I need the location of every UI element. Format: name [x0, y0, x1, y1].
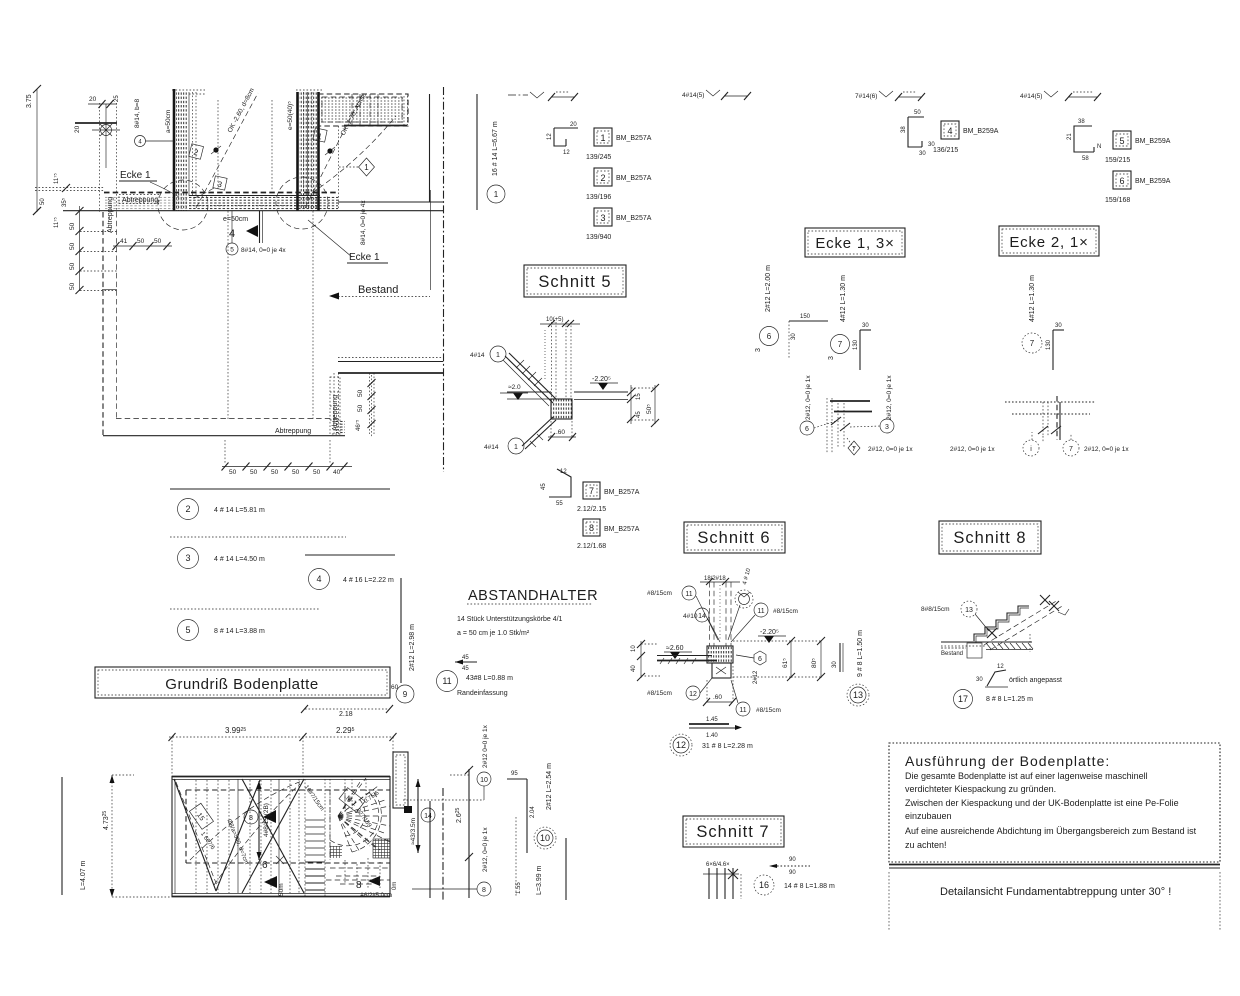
- callout circle wall A: [134, 99, 174, 147]
- svg-text:4#14(5): 4#14(5): [1020, 93, 1042, 100]
- svg-text:50: 50: [69, 262, 76, 270]
- svg-text:8#14, 0=0 je 4x: 8#14, 0=0 je 4x: [360, 200, 367, 245]
- Ecke 1, 3x title box: [805, 228, 905, 257]
- svg-text:6: 6: [758, 656, 762, 663]
- diagonal leader A with OK -2.60: [196, 87, 258, 208]
- svg-text:4#14: 4#14: [484, 444, 499, 451]
- left outer dim line 3.75: [26, 85, 41, 215]
- 8 and pointer bottom: [356, 876, 398, 899]
- svg-text:7: 7: [838, 340, 843, 349]
- svg-text:#8/15cm: #8/15cm: [773, 608, 798, 615]
- right dim chain 80: [791, 637, 825, 681]
- svg-text:Schnitt 6: Schnitt 6: [697, 529, 770, 547]
- svg-text:4#8/15 (2B): 4#8/15 (2B): [263, 803, 270, 837]
- svg-text:4 # 16 L=2.22 m: 4 # 16 L=2.22 m: [343, 577, 394, 584]
- svg-text:BM_B257A: BM_B257A: [604, 489, 640, 496]
- svg-text:45: 45: [636, 411, 642, 418]
- svg-text:50: 50: [292, 469, 300, 476]
- wall line right: [429, 94, 431, 202]
- callout circle 5: [226, 211, 286, 255]
- Schnitt 5 title box: [524, 265, 626, 297]
- Abtreppung right rotated label: [330, 377, 340, 434]
- svg-text:.60: .60: [556, 429, 565, 436]
- svg-text:13: 13: [853, 690, 863, 700]
- hatch under steps: [986, 643, 1033, 650]
- svg-text:58: 58: [1082, 156, 1089, 162]
- foundation block: [707, 646, 733, 678]
- svg-text:einzubauen: einzubauen: [905, 811, 952, 821]
- svg-text:30: 30: [919, 151, 926, 157]
- svg-text:8: 8: [482, 887, 486, 894]
- wall dotted above: [540, 317, 580, 399]
- svg-text:Detailansicht Fundamentabtrepp: Detailansicht Fundamentabtreppung unter …: [940, 886, 1171, 898]
- svg-text:e=50cm: e=50cm: [223, 216, 248, 223]
- schedule box 2: [586, 168, 652, 201]
- bar line 4: [305, 555, 395, 590]
- schedule box 5: [1105, 131, 1171, 164]
- svg-text:2#12 L=2.00 m: 2#12 L=2.00 m: [765, 265, 772, 312]
- diagonal leader B: [305, 92, 368, 208]
- svg-text:14 # 8 L=1.88 m: 14 # 8 L=1.88 m: [784, 883, 835, 890]
- svg-text:20: 20: [89, 96, 97, 103]
- svg-text:10: 10: [480, 777, 488, 784]
- svg-text:2.12/1.68: 2.12/1.68: [577, 543, 606, 550]
- svg-text:159/168: 159/168: [1105, 197, 1130, 204]
- bar line 3: [170, 537, 346, 569]
- svg-text:≈2.0: ≈2.0: [508, 384, 521, 391]
- dim 2.18: [301, 705, 393, 718]
- svg-text:8: 8: [589, 523, 594, 533]
- svg-text:#8/15cm: #8/15cm: [647, 590, 672, 597]
- V brace left: [174, 779, 260, 891]
- svg-text:3.75: 3.75: [26, 94, 33, 108]
- svg-text:50m: 50m: [278, 883, 285, 896]
- svg-text:12: 12: [547, 133, 553, 140]
- extra: top plan upper opening dots: [172, 90, 322, 190]
- main top dim chain: [169, 726, 397, 776]
- svg-text:#8/15cm: #8/15cm: [647, 690, 672, 697]
- Ecke1 corner callouts: [800, 375, 814, 435]
- svg-text:11: 11: [757, 608, 764, 615]
- svg-text:95: 95: [511, 771, 518, 777]
- svg-text:2#12 L=2.54 m: 2#12 L=2.54 m: [546, 763, 553, 810]
- svg-text:30: 30: [791, 333, 797, 340]
- svg-text:50: 50: [229, 469, 237, 476]
- Ecke2 callouts: [950, 440, 1039, 456]
- svg-text:6: 6: [262, 860, 268, 871]
- right dim chain outer: [631, 384, 659, 427]
- svg-text:2#12, 0=0 je 1x: 2#12, 0=0 je 1x: [886, 375, 893, 420]
- fan callouts right: [728, 590, 753, 640]
- schedule box 8: [577, 519, 640, 550]
- right dim chain small: [627, 385, 642, 424]
- svg-text:50⁵: 50⁵: [646, 404, 653, 414]
- svg-text:zu achten!: zu achten!: [905, 840, 947, 850]
- svg-text:14: 14: [424, 813, 432, 820]
- schedule box 1: [586, 128, 652, 161]
- svg-text:≈2.60: ≈2.60: [666, 645, 684, 652]
- svg-text:-2.20⁵: -2.20⁵: [592, 376, 611, 383]
- svg-text:Ecke 2, 1×: Ecke 2, 1×: [1009, 234, 1088, 251]
- bent bar glyph 7/8: [541, 469, 571, 507]
- svg-text:Auf eine ausreichende Abdichtu: Auf eine ausreichende Abdichtung im Über…: [905, 826, 1197, 836]
- svg-text:Ecke 1: Ecke 1: [349, 252, 380, 263]
- svg-text:örtlich angepasst: örtlich angepasst: [1009, 677, 1062, 684]
- lower diagonal bar bundle with callout 1: [484, 417, 556, 454]
- Schnitt 6 title box: [684, 522, 785, 553]
- dashed investigation circle right: [276, 177, 328, 229]
- survey point symbol: [92, 104, 120, 168]
- svg-text:verdichteter Kiespackung zu gr: verdichteter Kiespackung zu gründen.: [905, 784, 1056, 794]
- svg-text:5: 5: [185, 625, 190, 635]
- Schnitt 7 title box: [683, 816, 784, 847]
- svg-text:Randeinfassung: Randeinfassung: [457, 690, 508, 697]
- svg-text:2#12, 0=0 je 1x: 2#12, 0=0 je 1x: [950, 446, 995, 453]
- svg-text:50: 50: [357, 404, 364, 412]
- svg-text:4#12 L=1.30 m: 4#12 L=1.30 m: [1029, 275, 1036, 322]
- svg-text:4#12 L=1.30 m: 4#12 L=1.30 m: [840, 275, 847, 322]
- svg-text:a=50cm: a=50cm: [165, 110, 172, 133]
- Ecke 1 label: [119, 170, 179, 197]
- svg-text:11: 11: [442, 676, 451, 686]
- schedule box 6: [1105, 171, 1171, 204]
- Schnitt 8 title box: [939, 521, 1041, 554]
- svg-text:Abtreppung: Abtreppung: [275, 428, 311, 435]
- svg-text:8 # 14 L=3.88 m: 8 # 14 L=3.88 m: [214, 628, 265, 635]
- svg-text:11⁷⁵: 11⁷⁵: [53, 217, 60, 228]
- svg-text:41: 41: [120, 238, 128, 245]
- bottom plan extra joist dotted lines: [196, 780, 290, 893]
- horizontal wall band hatched: [104, 196, 338, 210]
- item 9 vertical bar: [391, 578, 416, 703]
- svg-text:25: 25: [114, 95, 120, 102]
- svg-text:1.55: 1.55: [516, 882, 522, 894]
- bent bar glyph 5: [1067, 119, 1101, 162]
- stepped dashes right: [330, 860, 388, 884]
- svg-text:12: 12: [560, 469, 567, 475]
- X mark mid: [987, 628, 997, 638]
- schnitt 7 detail bars: [703, 862, 741, 899]
- Bestand floor line: [338, 201, 443, 203]
- Ecke1 corner bars: [814, 398, 880, 454]
- svg-text:Abtreppung: Abtreppung: [332, 395, 339, 431]
- svg-text:3: 3: [755, 348, 762, 352]
- left dim chain: [69, 206, 84, 294]
- schedule box 4: [933, 121, 999, 154]
- item 16: [754, 875, 835, 895]
- tilted bar mark 1: [313, 128, 327, 142]
- horizontal dim chain 41/50/50: [113, 238, 173, 250]
- lower left annotation 6: [262, 856, 285, 896]
- svg-text:ABSTANDHALTER: ABSTANDHALTER: [468, 588, 598, 604]
- right room fan: [303, 785, 388, 860]
- Abtreppung label horizontal: [119, 195, 159, 205]
- svg-text:N: N: [1097, 144, 1101, 150]
- L-bar 6 shape: [789, 314, 828, 358]
- svg-text:130: 130: [853, 339, 859, 350]
- extra density: bottom plan fan arcs: [338, 778, 390, 852]
- extra: bestand block inner verticals: [352, 94, 408, 126]
- bar line 5: [170, 609, 320, 641]
- Bestand foundation steps right: [338, 358, 443, 435]
- svg-text:Schnitt 8: Schnitt 8: [953, 529, 1026, 547]
- svg-text:Die gesamte Bodenplatte ist au: Die gesamte Bodenplatte ist auf einer la…: [905, 771, 1148, 781]
- bent bar glyph 1-3: [547, 122, 578, 156]
- tilted label 15: [189, 803, 213, 829]
- lower callout 12 with dim 60: [647, 678, 712, 700]
- svg-text:8#14, 0=0 je 4x: 8#14, 0=0 je 4x: [241, 247, 286, 254]
- bestand box: [941, 643, 982, 658]
- svg-text:2#12 L=2.98 m: 2#12 L=2.98 m: [409, 624, 416, 671]
- mark group d: [1020, 91, 1101, 101]
- svg-text:30: 30: [862, 323, 869, 329]
- svg-text:9 # 8 L=1.50 m: 9 # 8 L=1.50 m: [857, 630, 864, 677]
- plate outline dashed left/bottom: [103, 212, 345, 436]
- fan callouts left: [647, 586, 718, 640]
- vertical bar line with item 1: [477, 94, 505, 210]
- tilted bar mark 2: [189, 144, 204, 160]
- svg-text:-2.20⁵: -2.20⁵: [760, 629, 779, 636]
- svg-text:7#14(6): 7#14(6): [855, 93, 877, 100]
- svg-text:12: 12: [997, 664, 1004, 670]
- svg-text:2#12, 0=0 je 1x: 2#12, 0=0 je 1x: [868, 446, 913, 453]
- Ecke 1 second label: [308, 220, 388, 263]
- L-bar 7 shape: [1046, 323, 1064, 370]
- bottom dim chain 50x5 40: [222, 440, 353, 476]
- plan outline: [172, 776, 390, 897]
- svg-text:18/2#18: 18/2#18: [704, 576, 726, 582]
- bar line 2: [170, 489, 390, 520]
- svg-text:50: 50: [69, 222, 76, 230]
- svg-text:2: 2: [185, 504, 190, 514]
- svg-text:21: 21: [1067, 133, 1073, 140]
- svg-text:40: 40: [631, 665, 637, 672]
- svg-text:10: 10: [540, 833, 550, 843]
- wall band A hatched: [174, 89, 196, 211]
- svg-text:139/196: 139/196: [586, 194, 611, 201]
- svg-text:12: 12: [563, 150, 570, 156]
- svg-text:50: 50: [40, 198, 46, 205]
- svg-text:7: 7: [589, 486, 594, 496]
- svg-text:6: 6: [767, 332, 772, 341]
- svg-text:#8/15cm: #8/15cm: [756, 707, 781, 714]
- svg-text:136/215: 136/215: [933, 147, 958, 154]
- svg-text:4#14(5): 4#14(5): [682, 92, 704, 99]
- property dash-dot line: [443, 87, 445, 472]
- svg-text:16: 16: [759, 880, 769, 890]
- svg-text:1: 1: [494, 190, 499, 199]
- svg-text:BM_B257A: BM_B257A: [604, 526, 640, 533]
- svg-text:BM_B259A: BM_B259A: [1135, 178, 1171, 185]
- svg-text:61⁵: 61⁵: [782, 658, 789, 668]
- Ecke 2, 1x title box: [999, 226, 1099, 256]
- thick dashed Abtreppung line: [104, 192, 336, 194]
- bent glyph below: [976, 664, 1008, 687]
- svg-text:4: 4: [947, 126, 952, 136]
- svg-text:3: 3: [885, 424, 889, 431]
- svg-text:2#12, 0=0 je 1x: 2#12, 0=0 je 1x: [482, 827, 489, 872]
- left side labels of plan: [62, 775, 172, 897]
- dotted setting-out verticals: [99, 103, 101, 212]
- small left labels: [33, 173, 70, 228]
- svg-text:5: 5: [1119, 136, 1124, 146]
- bottom plan right step dashes: [326, 858, 390, 888]
- dim 20 top: [88, 95, 120, 108]
- bar 6 with text: [755, 265, 779, 352]
- svg-text:1.45: 1.45: [706, 717, 718, 723]
- ground line: [941, 642, 1032, 646]
- svg-text:139/245: 139/245: [586, 154, 611, 161]
- Bestand upper block dashed: [312, 94, 408, 193]
- svg-text:7: 7: [852, 446, 856, 453]
- left slab lines: [500, 384, 551, 400]
- Bestand lower edge + pointer: [329, 190, 431, 300]
- svg-text:2#12 0=0 je 1x: 2#12 0=0 je 1x: [482, 724, 489, 768]
- svg-text:17: 17: [958, 694, 968, 704]
- svg-text:11⁷⁵: 11⁷⁵: [53, 173, 60, 184]
- svg-text:2#12, 0=0 je 1x: 2#12, 0=0 je 1x: [805, 375, 812, 420]
- svg-text:60: 60: [391, 684, 399, 691]
- callout 13: [921, 601, 989, 631]
- svg-text:Bestand: Bestand: [358, 284, 398, 296]
- schedule box 3: [586, 208, 652, 241]
- right bar 13: [832, 630, 869, 706]
- svg-text:Bestand: Bestand: [941, 651, 963, 657]
- svg-text:8#14, b=8: 8#14, b=8: [134, 99, 141, 128]
- X brace middle: [190, 779, 304, 893]
- svg-text:150: 150: [800, 314, 811, 320]
- svg-text:Abtreppung: Abtreppung: [122, 197, 158, 204]
- svg-text:12: 12: [689, 691, 697, 698]
- svg-text:e=50(40)⁵: e=50(40)⁵: [287, 101, 294, 130]
- svg-text:14: 14: [698, 613, 706, 620]
- svg-text:159/215: 159/215: [1105, 157, 1130, 164]
- stepped rebar: [974, 606, 1029, 643]
- main slab top line: [63, 210, 443, 212]
- diagonal dashed slope: [984, 595, 1069, 650]
- item 11 with arrow glyph: [437, 655, 514, 697]
- svg-text:6: 6: [805, 426, 809, 433]
- svg-text:4#14: 4#14: [470, 352, 485, 359]
- far right bar 10: [507, 763, 566, 900]
- svg-text:Ecke 1: Ecke 1: [120, 170, 151, 181]
- svg-text:BM_B259A: BM_B259A: [963, 128, 999, 135]
- svg-text:50: 50: [137, 238, 145, 245]
- L-bar 7 shape: [853, 323, 871, 370]
- svg-text:31 # 8 L=2.28 m: 31 # 8 L=2.28 m: [702, 743, 753, 750]
- svg-text:11: 11: [739, 707, 746, 714]
- approx 2.60 left: [664, 645, 692, 659]
- svg-text:90: 90: [789, 870, 796, 876]
- svg-text:55: 55: [556, 501, 563, 507]
- mark group a: [508, 92, 578, 101]
- svg-text:12: 12: [676, 740, 686, 750]
- bar 7 with text: [828, 275, 850, 360]
- extra density: bottom plan dashes and curve: [214, 779, 345, 885]
- bar 7 text: [1022, 275, 1042, 353]
- svg-text:Ecke 1, 3×: Ecke 1, 3×: [815, 235, 894, 252]
- tilted bar mark 3: [213, 176, 227, 190]
- svg-text:30: 30: [832, 661, 838, 668]
- right dim chain 61: [733, 637, 795, 681]
- top right bent mark: [738, 567, 752, 597]
- item 12 text: [670, 734, 753, 756]
- dim 60 under block: [548, 421, 576, 441]
- callout 8 with vertical dim: [244, 781, 276, 860]
- svg-text:50: 50: [69, 282, 76, 290]
- left abtreppung step rows: [80, 232, 117, 291]
- svg-text:4: 4: [316, 574, 321, 584]
- svg-text:90: 90: [789, 857, 796, 863]
- svg-text:4#10: 4#10: [683, 613, 698, 620]
- inner dashed rect: [186, 790, 390, 863]
- svg-text:15: 15: [636, 393, 642, 400]
- right-side annotation column: [403, 724, 491, 900]
- bent bar glyph 4: [901, 110, 935, 157]
- svg-text:4 # 14 L=5.81 m: 4 # 14 L=5.81 m: [214, 507, 265, 514]
- level mark -2.20: [758, 629, 786, 643]
- svg-text:BM_B257A: BM_B257A: [616, 215, 652, 222]
- svg-text:2.18: 2.18: [339, 711, 353, 718]
- svg-text:3: 3: [185, 553, 190, 563]
- svg-text:Ausführung der Bodenplatte:: Ausführung der Bodenplatte:: [905, 753, 1110, 769]
- svg-text:38: 38: [901, 126, 907, 133]
- svg-text:8: 8: [356, 880, 362, 891]
- inner verticals: [238, 779, 299, 893]
- bottom plan extra fan rays and arcs: [330, 779, 390, 852]
- svg-text:2.12/2.15: 2.12/2.15: [577, 506, 606, 513]
- bar symbol 12: [689, 717, 742, 739]
- svg-text:80⁵: 80⁵: [811, 658, 818, 668]
- svg-text:46⁷⁵: 46⁷⁵: [355, 419, 362, 431]
- right slab with level mark: [574, 376, 628, 400]
- bottom title strip: [889, 872, 1220, 930]
- svg-text:43#8 L=0.88 m: 43#8 L=0.88 m: [466, 675, 513, 682]
- foundation block hatched: [551, 399, 572, 419]
- slab left lines: [657, 656, 717, 665]
- mark group c: [855, 91, 925, 101]
- staircase: [305, 779, 325, 897]
- svg-text:BM_B259A: BM_B259A: [1135, 138, 1171, 145]
- bar symbol 16: [769, 857, 810, 876]
- svg-text:8#8/15cm: 8#8/15cm: [921, 606, 950, 613]
- svg-text:.60: .60: [713, 694, 722, 701]
- e=50cm annotation with arrow: [223, 211, 263, 243]
- svg-text:Grundriß Bodenplatte: Grundriß Bodenplatte: [165, 676, 318, 693]
- svg-text:139/940: 139/940: [586, 234, 611, 241]
- svg-text:20: 20: [74, 125, 81, 133]
- svg-text:3: 3: [600, 213, 605, 223]
- dotted band extension left: [35, 188, 104, 191]
- svg-text:20: 20: [570, 122, 577, 128]
- mesh grid block: [330, 839, 390, 858]
- svg-text:30: 30: [1055, 323, 1062, 329]
- svg-text:5: 5: [230, 247, 234, 254]
- svg-text:8: 8: [249, 815, 253, 822]
- svg-text:6×6/4.6×: 6×6/4.6×: [706, 862, 730, 868]
- svg-text:Abtreppung: Abtreppung: [107, 197, 114, 233]
- svg-text:1.40: 1.40: [706, 733, 718, 739]
- item 17: [954, 690, 1034, 709]
- short thick line with 20 label: [74, 123, 117, 133]
- svg-text:10: 10: [631, 645, 637, 652]
- svg-text:1: 1: [600, 133, 605, 143]
- svg-text:8 # 8 L=1.25 m: 8 # 8 L=1.25 m: [986, 696, 1033, 703]
- svg-text:2#12, 0=0 je 1x: 2#12, 0=0 je 1x: [1084, 446, 1129, 453]
- svg-text:2.04: 2.04: [530, 806, 536, 818]
- svg-text:1: 1: [496, 352, 500, 359]
- svg-text:0m: 0m: [392, 882, 398, 890]
